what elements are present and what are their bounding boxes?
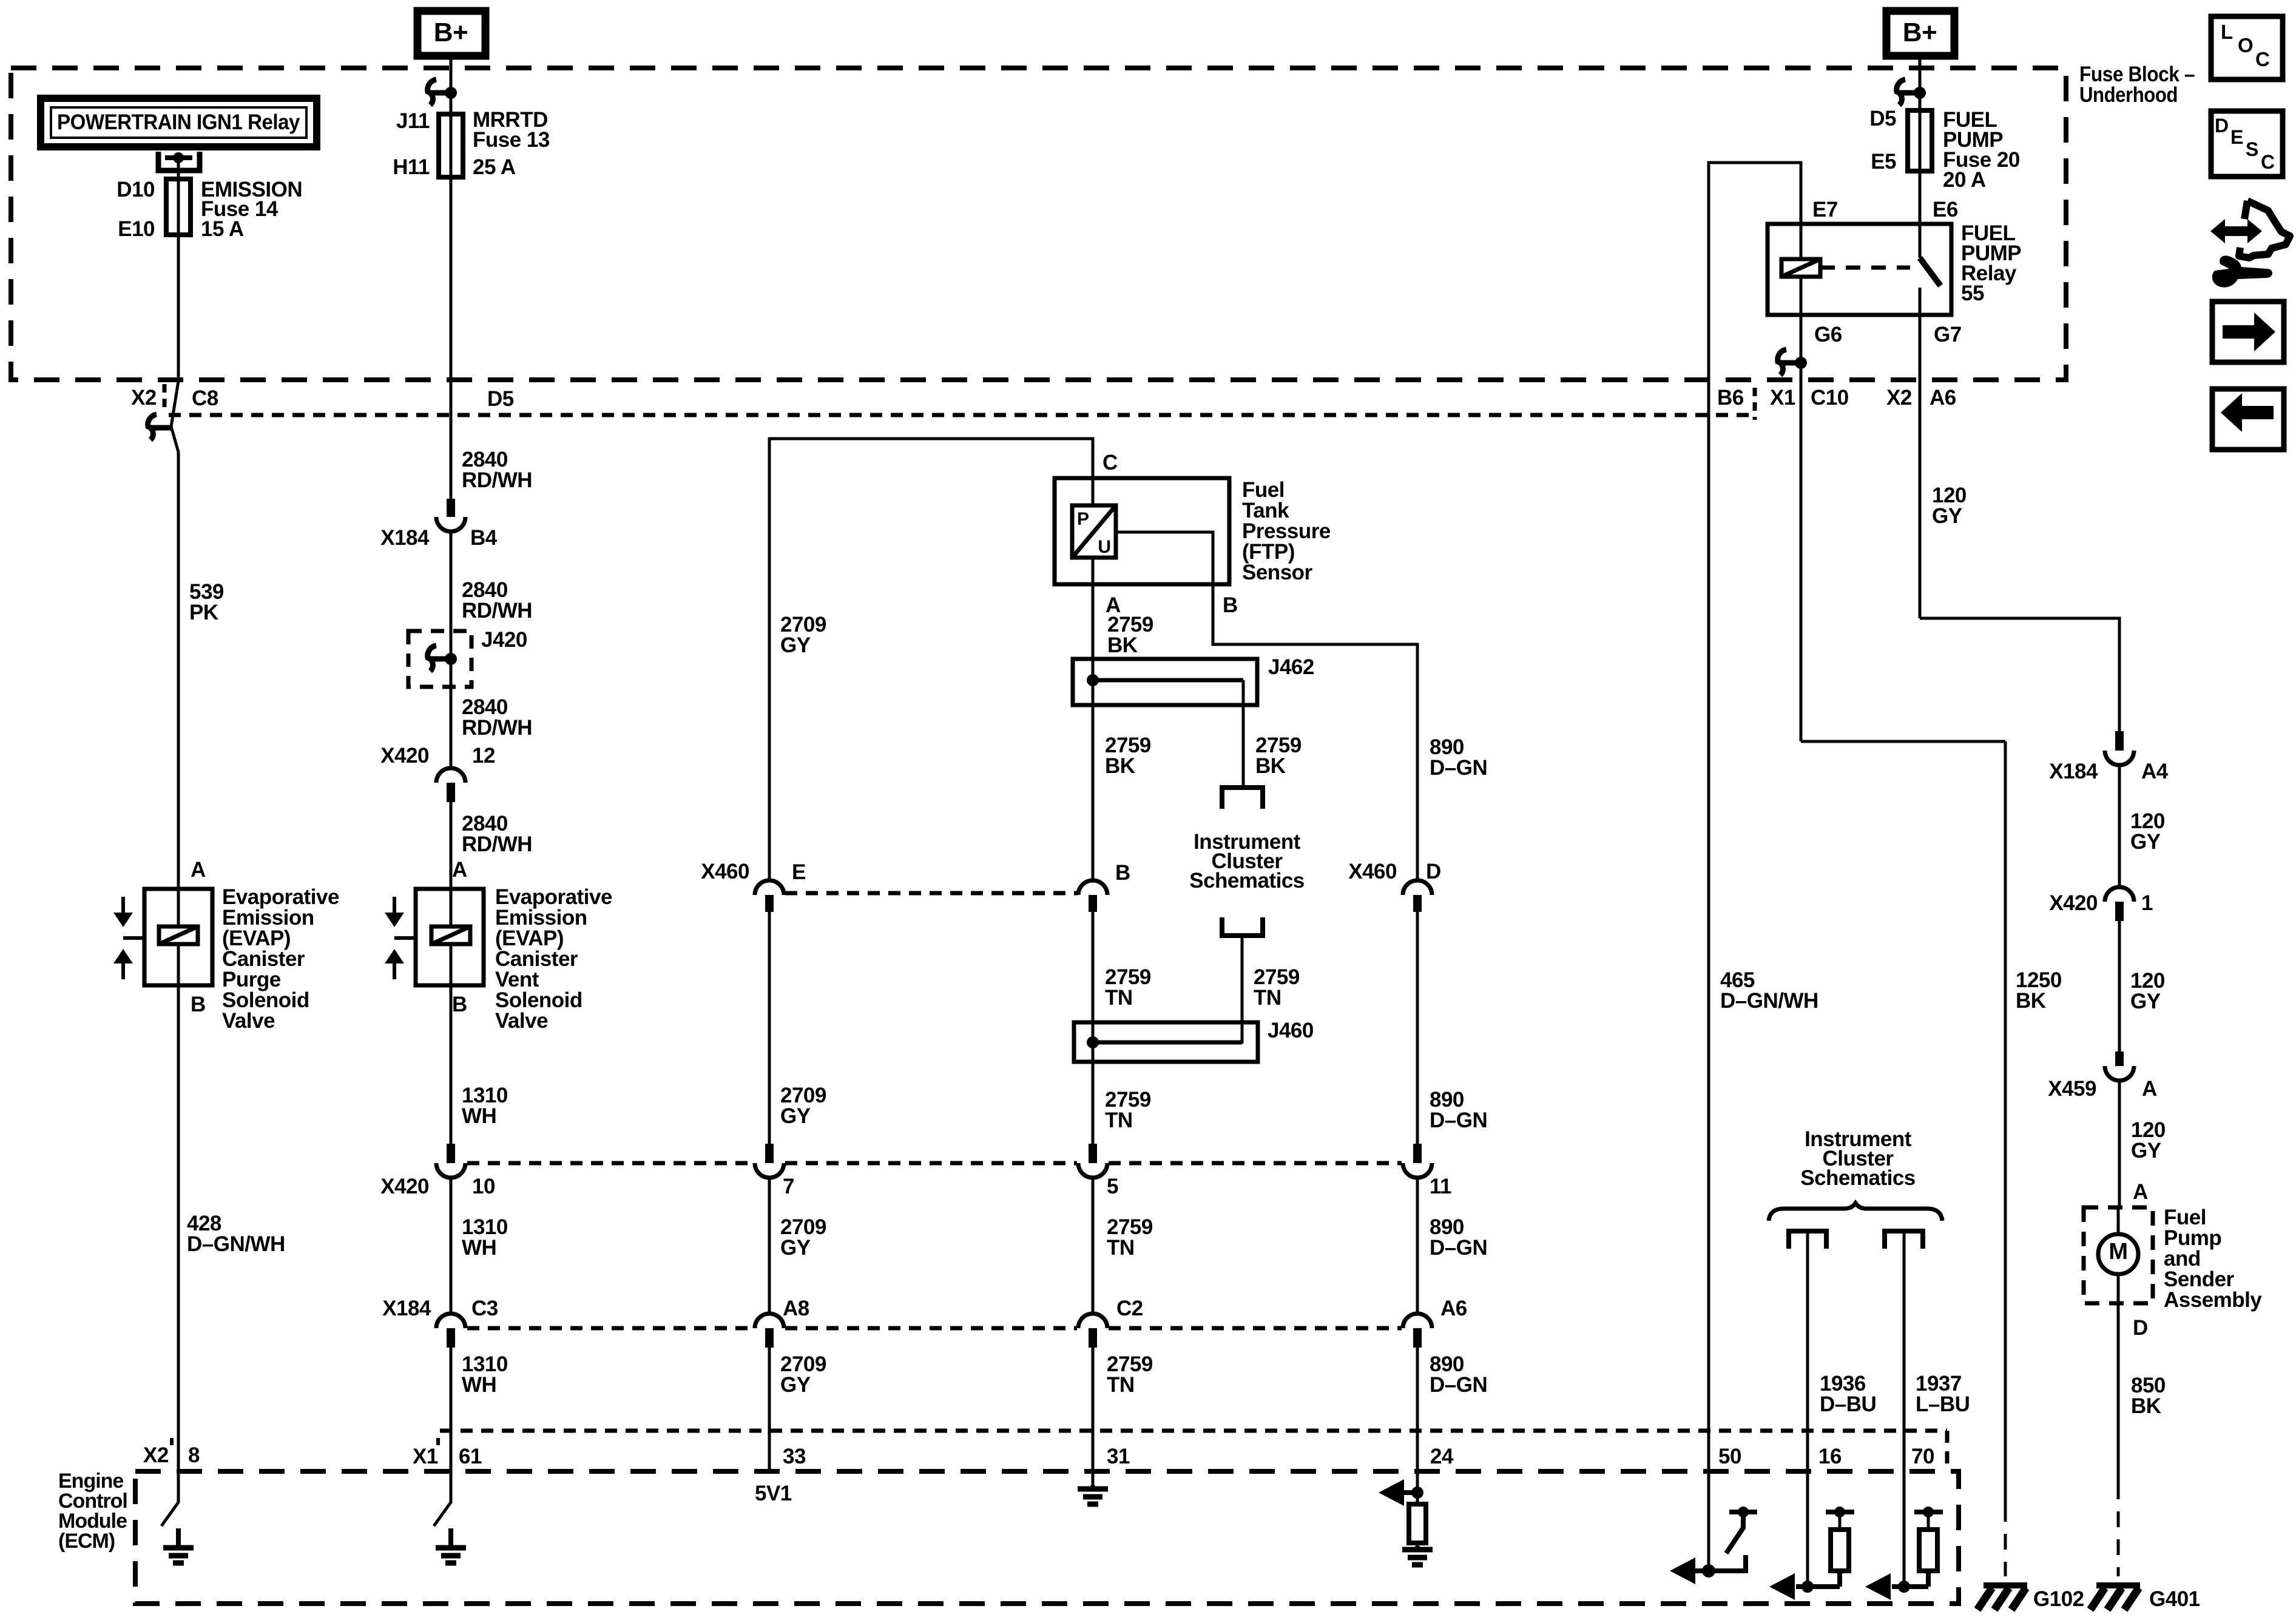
ECM internal resistor pin 16 — [1826, 1510, 1854, 1514]
svg-text:X184: X184 — [380, 526, 430, 550]
connector X420 5 — [1089, 1144, 1097, 1163]
wire purge valve B down to ECM pin 8 — [177, 985, 180, 1471]
icon DESC button — [2211, 111, 2283, 177]
ECM internal switch at pin 50 — [1729, 1510, 1757, 1514]
svg-text:C: C — [2261, 151, 2275, 173]
clip terminal at B+ left — [428, 79, 436, 105]
svg-text:X2: X2 — [131, 386, 157, 410]
svg-text:Schematics: Schematics — [1189, 869, 1305, 893]
svg-text:J460: J460 — [1268, 1019, 1314, 1042]
separator dash X1/61 — [436, 1438, 440, 1450]
svg-text:TN: TN — [1107, 1236, 1135, 1260]
wire to ECM pin 61 — [450, 1348, 453, 1471]
ECM internal ground pin 8 — [161, 1471, 178, 1526]
relay FUEL PUMP Relay 55 box — [1768, 224, 1951, 315]
connector X460 D — [1403, 880, 1432, 895]
svg-text:E7: E7 — [1812, 198, 1838, 221]
cluster wire stub 1936 — [1789, 1231, 1826, 1249]
svg-text:C8: C8 — [192, 386, 218, 410]
svg-text:C: C — [2255, 48, 2270, 70]
svg-text:TN: TN — [1254, 986, 1281, 1010]
connector X460 E — [755, 880, 784, 895]
svg-text:TN: TN — [1107, 1373, 1135, 1397]
svg-text:10: 10 — [472, 1175, 495, 1198]
svg-text:D–GN: D–GN — [1430, 1109, 1487, 1132]
svg-text:61: 61 — [459, 1445, 482, 1468]
wire 850 BK down — [2117, 1303, 2120, 1483]
svg-text:G102: G102 — [2033, 1587, 2084, 1611]
svg-text:X460: X460 — [701, 860, 749, 883]
wire E7 pin through relay to coil — [1800, 224, 1803, 259]
svg-text:Valve: Valve — [495, 1009, 548, 1033]
svg-text:X1: X1 — [1770, 386, 1795, 410]
wire FTP A pin down — [1092, 478, 1095, 505]
wire to X184 C3 — [450, 1178, 453, 1312]
fuse F13 MRRTD Fuse 13 25 A — [439, 114, 463, 177]
svg-text:D–GN/WH: D–GN/WH — [187, 1232, 285, 1256]
wire to ECM pin 31 — [1092, 1348, 1095, 1471]
connector X460 B — [1078, 880, 1107, 895]
svg-text:J462: J462 — [1268, 655, 1314, 679]
arrow continuation at pin 50 — [1682, 1568, 1709, 1573]
svg-text:BK: BK — [1107, 633, 1138, 657]
ground G102 — [1984, 1582, 2027, 1588]
svg-text:Valve: Valve — [222, 1009, 275, 1033]
svg-text:E: E — [792, 860, 806, 884]
svg-text:12: 12 — [472, 744, 495, 768]
ground G401 — [2096, 1582, 2140, 1588]
svg-text:GY: GY — [2131, 1139, 2161, 1163]
vent valve coil — [431, 926, 470, 944]
ECM internal resistor pin 70 — [1914, 1510, 1943, 1514]
wire J462 branch to cluster stub — [1242, 705, 1245, 785]
connector X2 C8 kink and clip — [171, 381, 178, 452]
svg-text:TN: TN — [1105, 1109, 1133, 1132]
svg-text:X420: X420 — [380, 744, 429, 768]
icon LOC button — [2211, 16, 2283, 79]
Fuel Tank Pressure FTP sensor box — [1055, 478, 1229, 584]
svg-text:A6: A6 — [1440, 1297, 1467, 1320]
svg-text:8: 8 — [188, 1443, 200, 1467]
svg-text:BK: BK — [2016, 989, 2046, 1013]
svg-text:D–GN: D–GN — [1430, 756, 1487, 780]
wire X460-D to X420 11 — [1416, 912, 1419, 1144]
connector X420 7 — [765, 1144, 774, 1163]
svg-text:A4: A4 — [2141, 760, 2169, 783]
svg-text:M: M — [2109, 1239, 2127, 1264]
svg-text:A: A — [191, 858, 206, 882]
relay actuation dashed line — [1820, 266, 1910, 270]
svg-text:RD/WH: RD/WH — [462, 716, 532, 740]
EVAP canister vent solenoid valve box — [416, 889, 484, 985]
svg-text:(ECM): (ECM) — [58, 1530, 115, 1553]
svg-text:7: 7 — [783, 1175, 794, 1198]
wire G7 down to A6 — [1919, 315, 1922, 618]
svg-text:A6: A6 — [1930, 386, 1956, 410]
svg-text:H11: H11 — [393, 155, 430, 179]
svg-text:O: O — [2238, 34, 2254, 56]
wire J460 to X420 5 — [1092, 1062, 1095, 1144]
motor M symbol — [2117, 1207, 2120, 1234]
wire B+ left down to MRRTD fuse — [450, 56, 453, 415]
svg-text:GY: GY — [780, 1104, 811, 1128]
relay switch blade — [1919, 224, 1922, 258]
svg-text:X184: X184 — [2049, 760, 2098, 783]
wire A6 jog right down — [1920, 618, 2119, 731]
svg-text:GY: GY — [2130, 990, 2161, 1013]
svg-text:70: 70 — [1911, 1445, 1934, 1468]
svg-text:BK: BK — [1255, 754, 1286, 778]
svg-text:GY: GY — [2130, 830, 2161, 854]
svg-text:BK: BK — [1105, 754, 1135, 778]
svg-text:RD/WH: RD/WH — [462, 832, 532, 856]
svg-text:D–GN/WH: D–GN/WH — [1720, 989, 1818, 1013]
ECM internal pin 24 arrow and resistor — [1416, 1471, 1419, 1493]
svg-text:D5: D5 — [1869, 107, 1896, 130]
svg-text:GY: GY — [780, 633, 811, 657]
wire X420-12 to EVAP vent valve — [450, 802, 453, 889]
wire to ECM pin 33 — [768, 1348, 771, 1471]
svg-text:WH: WH — [462, 1373, 496, 1397]
connector X459 A — [2115, 1051, 2124, 1066]
svg-text:D–GN: D–GN — [1430, 1236, 1487, 1260]
svg-text:C3: C3 — [471, 1297, 498, 1320]
svg-text:D: D — [2133, 1316, 2148, 1340]
wire E7 up-over to B6 wire — [1709, 163, 1801, 1431]
svg-text:BK: BK — [2131, 1394, 2161, 1418]
power feed B+ (right) — [1886, 11, 1954, 56]
svg-text:X420: X420 — [380, 1175, 429, 1198]
svg-text:GY: GY — [780, 1236, 811, 1260]
svg-text:G6: G6 — [1814, 323, 1842, 346]
svg-text:L–BU: L–BU — [1916, 1392, 1970, 1416]
power feed B+ (left) — [417, 11, 485, 56]
svg-text:WH: WH — [462, 1236, 496, 1260]
instrument cluster stub upper bracket — [1222, 788, 1263, 809]
svg-text:Fuse 13: Fuse 13 — [473, 128, 550, 152]
svg-text:11: 11 — [1430, 1175, 1451, 1198]
svg-text:POWERTRAIN IGN1 Relay: POWERTRAIN IGN1 Relay — [57, 110, 300, 134]
clip inside J420 — [428, 646, 436, 671]
ECM connector dashed line X1/X2 — [440, 1429, 1947, 1433]
svg-text:GY: GY — [1932, 504, 1962, 528]
connector X420 12 — [436, 768, 465, 783]
purge valve coil — [177, 889, 180, 926]
svg-text:S: S — [2246, 138, 2258, 160]
svg-text:J11: J11 — [396, 109, 430, 133]
relay POWERTRAIN IGN1 Relay box — [41, 98, 317, 147]
ECM internal ground pin 31 — [1092, 1471, 1095, 1487]
svg-text:E5: E5 — [1871, 150, 1896, 174]
svg-text:X460: X460 — [1348, 860, 1397, 883]
wire to X184 C2 — [1092, 1178, 1095, 1312]
svg-text:50: 50 — [1718, 1445, 1741, 1468]
brace under cluster label — [1769, 1203, 1942, 1221]
svg-text:TN: TN — [1105, 986, 1133, 1010]
wire to X184 A6 — [1416, 1178, 1419, 1312]
fuel pump and sender assembly dashed box — [2084, 1207, 2153, 1303]
svg-text:B+: B+ — [1903, 18, 1937, 47]
svg-text:A: A — [2142, 1077, 2157, 1101]
svg-text:20 A: 20 A — [1943, 168, 1986, 192]
svg-text:X459: X459 — [2048, 1077, 2096, 1101]
svg-text:D10: D10 — [116, 178, 155, 201]
svg-text:E: E — [2230, 126, 2243, 148]
connector X184 C2 — [1078, 1314, 1107, 1328]
connector X420 10 — [447, 1144, 455, 1163]
fuse F14 EMISSION Fuse 14 15 A — [166, 179, 191, 235]
svg-text:G7: G7 — [1934, 323, 1962, 346]
cluster wire stub 1937 — [1885, 1231, 1923, 1249]
svg-text:RD/WH: RD/WH — [462, 599, 532, 623]
wire X460-E to X420 7 — [768, 912, 771, 1144]
Engine Control Module ECM dashed box — [135, 1471, 1959, 1604]
svg-text:15 A: 15 A — [201, 217, 244, 241]
instrument cluster stub lower bracket — [1222, 917, 1263, 936]
relay output bracket terminal — [158, 152, 200, 170]
svg-text:X2: X2 — [143, 1443, 169, 1467]
splice J462 box — [1073, 659, 1257, 705]
connector X420 1 — [2105, 887, 2134, 902]
connector X184 A8 — [755, 1314, 784, 1328]
relay coil — [1781, 259, 1820, 277]
svg-text:L: L — [2221, 21, 2233, 43]
svg-text:X184: X184 — [382, 1297, 431, 1320]
svg-text:D–GN: D–GN — [1430, 1373, 1487, 1397]
wire 5V reference top run — [769, 439, 1093, 879]
wire to ECM pin 24 — [1416, 1348, 1419, 1471]
connector X184 A4 — [2115, 731, 2124, 751]
svg-text:Assembly: Assembly — [2164, 1288, 2262, 1312]
svg-text:31: 31 — [1107, 1445, 1130, 1468]
svg-text:X420: X420 — [2049, 891, 2098, 915]
wire J420 to X420 12 — [450, 687, 453, 767]
svg-text:25 A: 25 A — [473, 155, 516, 179]
wire C10 1250 BK jog right — [1801, 740, 2005, 743]
svg-text:B: B — [1115, 861, 1130, 885]
svg-text:J420: J420 — [481, 628, 527, 652]
svg-text:U: U — [1098, 537, 1111, 557]
svg-text:X1: X1 — [413, 1445, 438, 1468]
vent valve pintle arrows — [393, 897, 396, 913]
svg-text:33: 33 — [783, 1445, 806, 1468]
svg-text:C10: C10 — [1811, 386, 1849, 410]
svg-text:X2: X2 — [1886, 386, 1912, 410]
svg-text:E6: E6 — [1933, 198, 1958, 221]
wire relay to EMISSION fuse — [177, 158, 180, 381]
wire X460-B to J460 — [1092, 912, 1095, 1022]
icon forward arrow button — [2212, 302, 2284, 362]
dashed wire to G401 — [2117, 1483, 2120, 1576]
svg-text:P: P — [1077, 509, 1089, 529]
svg-text:Underhood: Underhood — [2079, 83, 2178, 107]
wire J462 to X460 B — [1092, 705, 1095, 880]
svg-text:D: D — [1426, 860, 1441, 883]
separator dash X2/8 — [170, 1438, 174, 1450]
svg-text:Schematics: Schematics — [1800, 1166, 1916, 1190]
wire vent valve B to X420 10 — [450, 985, 453, 1144]
svg-text:WH: WH — [462, 1104, 496, 1128]
svg-text:PK: PK — [189, 601, 218, 624]
wire FTP B branch — [1116, 532, 1417, 880]
clip terminal at G6 — [1778, 349, 1786, 375]
svg-text:D: D — [2215, 115, 2229, 137]
FTP P/U transducer square — [1072, 505, 1116, 558]
wire stub to J460 — [1241, 936, 1244, 1044]
svg-text:A8: A8 — [783, 1297, 809, 1320]
X420 dashed connector line — [467, 1161, 754, 1166]
connector X184 C3 — [436, 1314, 465, 1328]
svg-text:C: C — [1102, 451, 1118, 474]
wire G6 down to C10 — [1800, 315, 1803, 741]
svg-text:5V1: 5V1 — [755, 1482, 792, 1505]
X184 dashed connector line — [467, 1326, 754, 1331]
svg-text:16: 16 — [1818, 1445, 1842, 1468]
separator dash X2/C8 — [163, 384, 167, 408]
splice J460 box — [1074, 1022, 1258, 1062]
svg-text:B4: B4 — [470, 526, 498, 550]
svg-text:B6: B6 — [1717, 386, 1744, 410]
svg-text:G401: G401 — [2149, 1587, 2200, 1611]
svg-text:D5: D5 — [487, 387, 514, 411]
svg-text:A: A — [2133, 1180, 2148, 1204]
svg-text:55: 55 — [1961, 282, 1984, 305]
purge valve pintle arrows — [121, 897, 125, 913]
svg-text:A: A — [452, 858, 467, 882]
clip terminal at B+ right — [1897, 79, 1905, 105]
EVAP canister purge solenoid valve box — [144, 889, 212, 985]
icon wrench and arrows — [2210, 219, 2262, 243]
svg-text:GY: GY — [780, 1373, 811, 1397]
wire B6 continues into ECM pin 50 — [1707, 1431, 1710, 1571]
separator dash B6/X1 — [1753, 388, 1757, 420]
X460 dashed line E-B — [785, 891, 1078, 896]
connector X184 A6 — [1403, 1314, 1432, 1328]
wire C8 to purge valve — [177, 452, 180, 889]
icon back arrow button — [2212, 389, 2284, 450]
svg-text:B: B — [191, 993, 206, 1016]
fuse block - underhood dashed box — [11, 68, 2066, 380]
svg-text:B: B — [1223, 593, 1238, 617]
wire B+ right down to FUEL PUMP fuse — [1919, 56, 1922, 224]
connector X420 11 — [1413, 1144, 1422, 1163]
svg-text:E10: E10 — [118, 217, 155, 241]
wire to X184 A8 — [768, 1178, 771, 1312]
connector dashed line below fuse block — [169, 413, 1755, 417]
splice J420 dashed box — [408, 631, 471, 687]
dashed wire to G102 — [2004, 1506, 2007, 1576]
svg-text:1: 1 — [2141, 891, 2153, 915]
ECM internal ground pin 61 — [434, 1471, 451, 1526]
svg-text:RD/WH: RD/WH — [462, 468, 532, 492]
connector X184 B4 — [447, 499, 455, 517]
svg-text:24: 24 — [1430, 1445, 1454, 1468]
svg-text:5: 5 — [1107, 1175, 1118, 1198]
svg-text:B: B — [452, 993, 467, 1016]
svg-text:D–BU: D–BU — [1820, 1392, 1876, 1416]
svg-text:Sensor: Sensor — [1242, 561, 1313, 584]
wire D5 to X184 B4 — [450, 415, 453, 499]
fuse F20 FUEL PUMP Fuse 20 20 A — [1908, 110, 1932, 171]
svg-text:C2: C2 — [1116, 1297, 1143, 1320]
svg-text:B+: B+ — [434, 18, 468, 47]
